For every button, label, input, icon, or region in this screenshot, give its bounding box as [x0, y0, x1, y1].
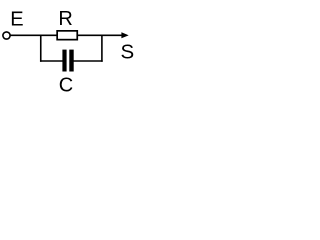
- capacitor C plate 1: [62, 50, 66, 72]
- svg-text:R: R: [58, 8, 72, 30]
- wire: right junction to output arrow: [101, 34, 122, 36]
- svg-text:E: E: [10, 8, 23, 30]
- wire: E terminal to left junction: [11, 34, 42, 36]
- wire: bottom left to capacitor: [40, 60, 63, 62]
- arrowhead S output: [121, 32, 128, 38]
- terminal E (open circle): [3, 32, 10, 39]
- wire: left junction to resistor: [40, 34, 57, 36]
- capacitor C plate 2: [69, 50, 73, 72]
- wire: right vertical branch: [101, 35, 103, 62]
- svg-text:S: S: [121, 40, 135, 63]
- resistor R: [57, 31, 77, 40]
- wire: capacitor to bottom right: [74, 60, 103, 62]
- wire: left vertical branch: [40, 35, 42, 62]
- wire: resistor to right junction: [77, 34, 103, 36]
- svg-text:C: C: [59, 75, 73, 97]
